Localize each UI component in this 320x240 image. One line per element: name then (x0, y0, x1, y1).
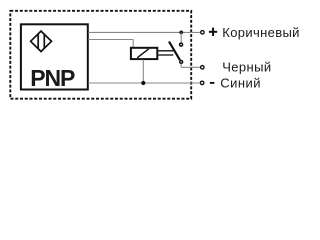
switch bottom contact (180, 60, 183, 63)
wire black output down from bottom contact (180, 64, 182, 68)
sensor logo diamond (31, 31, 52, 51)
load diagonal slash (137, 49, 149, 58)
junction dot on blue wire (141, 81, 145, 85)
switch top contact (180, 43, 183, 46)
wire from load bottom down to blue wire (142, 60, 144, 84)
svg-text:Коричневый: Коричневый (222, 25, 299, 40)
wire black output horizontal to terminal (181, 66, 200, 68)
svg-text:Синий: Синий (220, 76, 261, 91)
load element rectangle (131, 48, 157, 59)
sensor body box (21, 24, 88, 89)
svg-text:Черный: Черный (222, 60, 271, 75)
switch lever (169, 42, 180, 61)
wire from brown junction down to top contact (180, 32, 182, 42)
minus sign (210, 82, 215, 84)
wire blue (0V) from sensor to terminal (88, 82, 199, 84)
wire brown (+V) from sensor to terminal (88, 31, 200, 33)
terminal black (201, 66, 205, 70)
sensor enclosure dashed border (10, 11, 191, 99)
terminal brown (201, 31, 205, 35)
actuator double line from load to switch (158, 50, 174, 52)
terminal blue (200, 81, 204, 85)
svg-text:PNP: PNP (30, 65, 75, 91)
junction dot on brown wire (179, 31, 183, 35)
plus sign (209, 28, 217, 36)
wire output branch vertical down to load (132, 40, 134, 48)
wire output branch horizontal (88, 39, 133, 41)
